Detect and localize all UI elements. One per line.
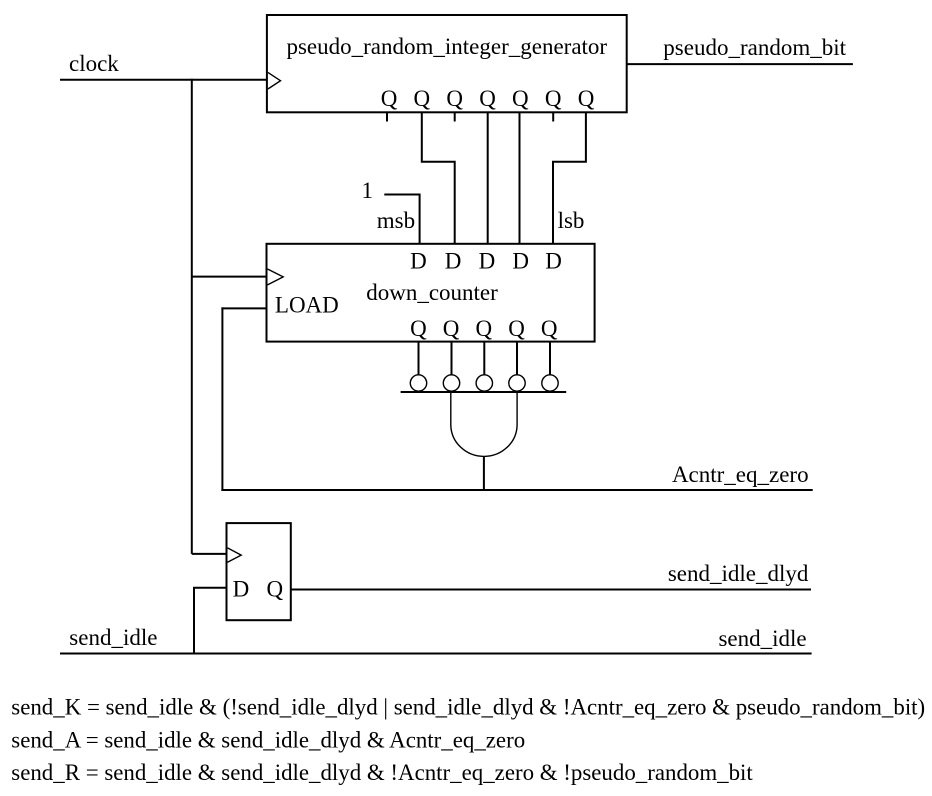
svg-text:send_idle: send_idle — [69, 625, 157, 650]
svg-text:Q: Q — [381, 86, 398, 111]
wire U1 Q4 to D3 — [487, 112, 489, 244]
wire U1 Q1 stub — [386, 112, 388, 121]
svg-text:1: 1 — [362, 178, 374, 203]
svg-text:D: D — [410, 248, 427, 273]
wire U2 Q5 to inverter — [549, 342, 551, 375]
svg-text:send_A = send_idle & send_idle: send_A = send_idle & send_idle_dlyd & Ac… — [11, 728, 525, 753]
wire send_idle — [60, 653, 812, 655]
wire U1 Q7 to D5 — [553, 112, 586, 244]
AND gate input bar — [401, 391, 567, 393]
svg-text:Q: Q — [508, 316, 525, 341]
wire U1 Q2 to D2 — [422, 112, 455, 244]
inverter bubble 3 — [476, 375, 492, 391]
wire U2 Q4 to inverter — [516, 342, 518, 375]
wire U2 Q1 to inverter — [418, 342, 420, 375]
svg-text:Q: Q — [512, 86, 529, 111]
wire U2 Q2 to inverter — [451, 342, 453, 375]
wire U1 Q5 to D4 — [519, 112, 521, 244]
svg-text:clock: clock — [69, 51, 119, 76]
svg-text:Q: Q — [475, 316, 492, 341]
wire clock trunk — [191, 79, 193, 554]
wire send_idle to D — [194, 588, 227, 654]
wire U1 Q3 stub — [454, 112, 456, 121]
clock triangle U3 — [228, 548, 242, 562]
block U2 down_counter — [267, 244, 595, 342]
AND gate body — [451, 392, 517, 456]
svg-text:Acntr_eq_zero: Acntr_eq_zero — [672, 462, 809, 487]
svg-text:D: D — [233, 577, 250, 602]
svg-text:send_K = send_idle & (!send_id: send_K = send_idle & (!send_idle_dlyd | … — [11, 695, 925, 720]
svg-text:Q: Q — [410, 316, 427, 341]
wire clock branch to down_counter — [192, 276, 267, 278]
wire clock branch to flip-flop — [192, 553, 227, 555]
svg-text:Q: Q — [413, 86, 430, 111]
svg-text:Q: Q — [443, 316, 460, 341]
wire constant 1 to D1 — [384, 195, 419, 244]
svg-text:send_idle: send_idle — [718, 626, 806, 651]
svg-text:Q: Q — [578, 86, 595, 111]
svg-text:Q: Q — [479, 86, 496, 111]
svg-text:D: D — [545, 248, 562, 273]
svg-text:D: D — [479, 248, 496, 273]
wire LOAD feedback vertical — [221, 307, 223, 491]
clock triangle U1 — [268, 72, 281, 89]
svg-text:lsb: lsb — [558, 208, 585, 233]
block U1 pseudo_random_integer_generator — [267, 15, 627, 112]
wire U1 Q6 stub — [552, 112, 554, 121]
svg-text:down_counter: down_counter — [366, 280, 498, 305]
wire U2 Q3 to inverter — [483, 342, 485, 375]
svg-text:Q: Q — [446, 86, 463, 111]
inverter bubble 1 — [410, 375, 426, 391]
inverter bubble 2 — [443, 375, 459, 391]
svg-text:Q: Q — [266, 577, 283, 602]
svg-text:LOAD: LOAD — [275, 293, 339, 318]
wire pseudo_random_bit output — [627, 63, 853, 65]
svg-text:msb: msb — [377, 208, 415, 233]
inverter bubble 4 — [509, 375, 525, 391]
wire Acntr_eq_zero — [221, 489, 812, 491]
svg-text:D: D — [512, 248, 529, 273]
svg-text:pseudo_random_bit: pseudo_random_bit — [663, 35, 846, 60]
inverter bubble 5 — [542, 375, 558, 391]
svg-text:Q: Q — [545, 86, 562, 111]
wire LOAD input — [221, 307, 266, 309]
svg-text:pseudo_random_integer_generato: pseudo_random_integer_generator — [286, 34, 607, 59]
svg-text:D: D — [445, 248, 462, 273]
wire clock input — [60, 79, 267, 81]
wire AND output — [483, 456, 485, 491]
block U3 flip-flop — [227, 523, 291, 620]
svg-text:Q: Q — [541, 316, 558, 341]
wire send_idle_dlyd output — [291, 589, 811, 591]
svg-text:send_R = send_idle & send_idle: send_R = send_idle & send_idle_dlyd & !A… — [11, 760, 753, 785]
svg-text:send_idle_dlyd: send_idle_dlyd — [668, 561, 809, 586]
clock triangle U2 — [268, 269, 284, 285]
